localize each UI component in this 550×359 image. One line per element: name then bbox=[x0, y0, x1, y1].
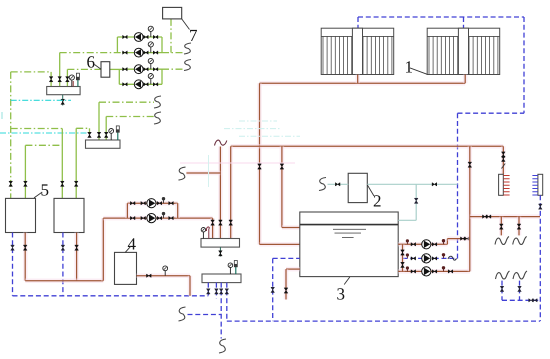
pipe green stub box5b-right bbox=[75, 128, 77, 198]
pipe red box5b outlet bbox=[74, 233, 79, 281]
manifold E bbox=[202, 274, 241, 283]
pipe green stub B2 riser bbox=[98, 102, 100, 140]
pipe stub manifold D to E bbox=[219, 247, 221, 256]
valve branch lower b bbox=[486, 215, 491, 218]
pipe red collect header bbox=[25, 278, 103, 283]
pipe red pump row A bbox=[127, 201, 177, 206]
gauge left R2 bbox=[406, 255, 408, 258]
gauge row 2 bbox=[150, 47, 152, 53]
valve row1 exit b bbox=[465, 237, 470, 240]
pipe faint cyan a bbox=[239, 120, 277, 122]
leader line 3 bbox=[344, 277, 350, 285]
pipe blue supply top header bbox=[358, 16, 524, 18]
valve E3 bbox=[219, 289, 223, 294]
pipe red row1 exit bbox=[447, 236, 469, 241]
valve E1 bbox=[207, 289, 211, 294]
pipe green left link rows1-2 bbox=[116, 37, 118, 53]
valve4 row A bbox=[169, 202, 174, 205]
pipe blue tank row2 bbox=[403, 257, 458, 259]
pipe faint cyan c bbox=[239, 135, 300, 137]
valve box5b-right bbox=[74, 181, 78, 186]
pipe blue bottom header bbox=[13, 295, 209, 297]
valve wavy drop a bbox=[500, 224, 504, 229]
break wave c bbox=[496, 271, 510, 279]
label 7 bbox=[190, 30, 197, 41]
pump P4 bbox=[134, 80, 143, 89]
pipe teal box2 to right bbox=[367, 183, 457, 185]
pipe red drop to manifold D bbox=[210, 218, 215, 238]
thermometer manifold A bbox=[77, 80, 79, 87]
valve drop manifold D bbox=[211, 220, 215, 225]
pipe green drop to B1 bbox=[89, 128, 91, 132]
radiator bank 1b outline bbox=[427, 28, 500, 74]
valve riser c bbox=[500, 286, 504, 291]
valve right row 1 bbox=[153, 35, 158, 38]
pipe green row1 left stub bbox=[117, 36, 122, 38]
label 5 bbox=[41, 184, 48, 195]
valve lower link b bbox=[533, 299, 538, 302]
pipe teal drop bbox=[415, 184, 417, 220]
fan coil comb2 body bbox=[538, 174, 543, 195]
pipe red riser from manifold bbox=[228, 146, 233, 238]
leader line 1 bbox=[410, 68, 427, 74]
pipe green B2 header bbox=[99, 101, 154, 103]
pipe blue riser c bbox=[501, 281, 503, 301]
radiator bank 1a header line bbox=[321, 35, 394, 37]
radiator bank 1b center connector bbox=[458, 28, 468, 74]
valve E2 bbox=[215, 289, 219, 294]
valve stub A1 bbox=[49, 77, 53, 82]
valve comb1 b bbox=[502, 156, 506, 161]
pump PA bbox=[147, 199, 156, 208]
pipe red comb1 feed bbox=[501, 146, 506, 174]
break wave d bbox=[513, 271, 527, 279]
leader line 4 bbox=[125, 246, 131, 252]
pipe red pump row B bbox=[103, 216, 212, 221]
valve right row 2 bbox=[153, 51, 158, 54]
valve mid row 2 bbox=[144, 51, 149, 54]
pipe red into tank upper bbox=[282, 225, 300, 230]
pipe cyan feed lower bbox=[0, 132, 90, 134]
pipe blue right riser bbox=[523, 17, 525, 113]
valve2 R3 bbox=[432, 270, 437, 273]
pipe faint cyan b bbox=[224, 128, 281, 130]
valve on center riser bbox=[219, 220, 223, 225]
pipe red branch lower bbox=[470, 214, 540, 219]
pipe green B3 header bbox=[106, 116, 154, 118]
leader line 2 bbox=[367, 185, 374, 196]
valve red box5b outlet bbox=[75, 245, 79, 250]
pipe blue E4 stub bbox=[226, 283, 228, 322]
pipe red link rows bbox=[400, 244, 405, 271]
valve2 R1 bbox=[432, 243, 437, 246]
valve stub A2 bbox=[58, 77, 62, 82]
faint cyan tick near manifold D bbox=[208, 155, 210, 187]
pipe red stub radiator 1b bbox=[463, 75, 468, 84]
pipe green row3 right extension bbox=[162, 68, 184, 70]
valve left row 3 bbox=[123, 68, 128, 71]
break symbol row3 bbox=[184, 60, 191, 71]
valve mid row 3 bbox=[144, 68, 149, 71]
pipe blue comb2 drop bbox=[539, 195, 541, 321]
gauge manifold B bbox=[110, 133, 112, 140]
pipe red box4 drop bbox=[188, 276, 193, 296]
pipe green cross header bbox=[25, 144, 62, 146]
pipe red row1 up bbox=[445, 239, 450, 245]
storage tank 5a bbox=[6, 198, 36, 232]
break symbol B2 bbox=[154, 96, 161, 108]
valve blue box5b drain bbox=[61, 245, 65, 250]
gauge row 3 bbox=[150, 64, 152, 70]
pump R1 bbox=[422, 240, 431, 249]
pipe blue riser d bbox=[519, 281, 521, 301]
pipe green link to manifold B bbox=[76, 127, 89, 129]
pipe blue E3 stub bbox=[220, 283, 222, 339]
valve1 row A bbox=[130, 202, 135, 205]
expansion vessel box 4 bbox=[115, 252, 137, 284]
fan coil comb1 body bbox=[499, 174, 504, 195]
pipe cyan feed upper bbox=[11, 99, 71, 101]
radiator bank 1a outline bbox=[321, 28, 394, 74]
pipe red branch from break bbox=[186, 171, 220, 176]
gauge left R3 bbox=[406, 268, 408, 271]
valve stub B3 bbox=[104, 132, 108, 137]
valve red box5a outlet bbox=[23, 245, 27, 250]
pipe red radiator return header bbox=[260, 81, 466, 86]
pipe green branch header bbox=[11, 128, 63, 130]
pipe green pump row 2 bbox=[122, 52, 162, 54]
break tilde top of riser bbox=[215, 140, 227, 145]
pipe green stub B3 riser bbox=[105, 117, 107, 141]
pipe green expansion drop bbox=[170, 19, 172, 53]
label 6 bbox=[87, 56, 94, 67]
thermometer manifold B bbox=[117, 132, 119, 140]
gauge R2 bbox=[443, 255, 445, 259]
expansion tank box 7 bbox=[163, 7, 182, 19]
label 4 bbox=[128, 238, 136, 249]
valve link b bbox=[401, 262, 405, 267]
valve drain manifold A bbox=[61, 99, 65, 104]
valve mid row 1 bbox=[144, 35, 149, 38]
pipe green pump row 3 bbox=[122, 68, 162, 70]
valve right row 3 bbox=[153, 68, 158, 71]
pipe blue drop to radiator 1a bbox=[357, 17, 359, 28]
radiator bank 1a center connector bbox=[352, 28, 362, 74]
gauge box4 line bbox=[164, 271, 166, 276]
thermometer manifold E bbox=[235, 267, 237, 274]
gauge row B bbox=[163, 214, 165, 219]
break symbol B3 bbox=[154, 112, 161, 124]
leader line 7 bbox=[182, 19, 190, 30]
break wave a bbox=[495, 237, 509, 245]
pipe green header to left bbox=[11, 71, 51, 73]
leader line 6 bbox=[95, 65, 102, 70]
valve stub B1 bbox=[88, 132, 92, 137]
valve teal drop bbox=[414, 198, 418, 203]
pipe blue box5a drain bbox=[12, 233, 14, 296]
pipe green row4 left stub bbox=[119, 83, 122, 85]
pipe red return to tank bbox=[260, 242, 300, 247]
tank water level marks bbox=[333, 229, 366, 237]
gauge R3 bbox=[443, 268, 445, 272]
valve1 R3 bbox=[411, 270, 416, 273]
pipe red box5a outlet bbox=[23, 233, 28, 281]
pipe red link right bbox=[175, 203, 180, 218]
valve3 row B bbox=[157, 216, 162, 219]
pump PB bbox=[147, 214, 156, 223]
label 3 bbox=[337, 288, 344, 299]
pipe green right link rows1-2 bbox=[161, 37, 163, 53]
pipe blue wavy branch bbox=[188, 314, 222, 316]
pipe blue bottom main bbox=[227, 320, 540, 322]
pump P3 bbox=[134, 65, 143, 74]
faint cyan tick left edge bbox=[1, 112, 3, 119]
pipe green stub A3 bbox=[66, 69, 68, 86]
valve left row 2 bbox=[123, 51, 128, 54]
valve E4 bbox=[225, 289, 229, 294]
pipe blue tank feed drop bbox=[272, 258, 274, 321]
leader line 5 bbox=[34, 192, 42, 198]
label 2 bbox=[374, 195, 381, 206]
manifold D bbox=[201, 239, 240, 248]
pipe green stub box5b-left bbox=[61, 129, 63, 199]
valve box5a-right bbox=[24, 181, 28, 186]
pump P1 bbox=[134, 33, 143, 42]
pipe red wavy drop a bbox=[499, 217, 504, 236]
pipe blue tank feed bbox=[273, 257, 300, 259]
pipe red tank row3 bbox=[398, 269, 470, 274]
pipe green into box6 bbox=[67, 68, 101, 70]
pipe red link left bbox=[125, 203, 130, 218]
valve on manifold riser bbox=[229, 220, 233, 225]
gauge row 4 bbox=[150, 79, 152, 85]
pipe green pump row 4 bbox=[122, 83, 162, 85]
valve box5b-left bbox=[61, 181, 65, 186]
red stem manifold D bbox=[208, 229, 210, 239]
radiator bank 1b fins bbox=[429, 36, 498, 74]
gauge left R1 bbox=[406, 241, 408, 244]
break symbol blue bottom bbox=[219, 339, 226, 353]
valve stub A3 bbox=[66, 77, 70, 82]
pipe blue drop to radiator 1b bbox=[463, 17, 465, 28]
pipe teal into box2 bbox=[328, 183, 349, 185]
red stem manifold A gauge bbox=[72, 81, 74, 87]
valve teal right bbox=[432, 183, 437, 186]
valve stub B2 bbox=[97, 132, 101, 137]
pipe blue E2 stub bbox=[215, 283, 217, 299]
gauge R1 bbox=[443, 241, 445, 245]
pipe blue box5b drain bbox=[62, 233, 64, 296]
valve heating riser bbox=[468, 162, 472, 167]
valve branch lower a bbox=[483, 215, 488, 218]
pipe blue jog header bbox=[458, 112, 525, 114]
valve riser d bbox=[518, 286, 522, 291]
valve blue box5a drain bbox=[11, 245, 15, 250]
valve left row 1 bbox=[123, 35, 128, 38]
valve blue tank feed bbox=[271, 287, 275, 292]
pipe green left downcomer bbox=[10, 72, 12, 198]
valve1 row B bbox=[130, 216, 135, 219]
pipe green left link rows3-4 bbox=[118, 69, 120, 84]
pipe red supply main bbox=[231, 144, 504, 149]
valve3 row A bbox=[157, 202, 162, 205]
valve4 row B bbox=[169, 216, 174, 219]
pipe red tank row1 bbox=[398, 242, 447, 247]
pipe green out of box6 bbox=[110, 68, 122, 70]
pipe red box4 outlet bbox=[137, 273, 191, 278]
valve box5a-left bbox=[9, 181, 13, 186]
pipe red stub radiator 1a bbox=[355, 75, 360, 84]
label 1 bbox=[406, 61, 412, 72]
break wave b bbox=[513, 237, 527, 245]
pipe green pump row 1 bbox=[122, 36, 162, 38]
valve tank drain bbox=[284, 288, 288, 293]
pipe blue lower link bbox=[502, 299, 540, 301]
valve teal inlet bbox=[335, 183, 340, 186]
pipe faint pink bbox=[180, 162, 295, 164]
valve2 row B bbox=[141, 216, 146, 219]
pipe green stub box5a-right bbox=[24, 145, 26, 198]
pipe teal into tank bbox=[398, 219, 416, 221]
valve row1 exit a bbox=[461, 237, 466, 240]
gauge manifold E bbox=[229, 268, 231, 275]
pump P2 bbox=[134, 48, 143, 57]
break symbol teal bbox=[319, 178, 326, 191]
pipe green stub A2 bbox=[59, 53, 61, 87]
storage tank 5b bbox=[54, 198, 84, 232]
valve1 R2 bbox=[411, 257, 416, 260]
buffer tank 3 bbox=[300, 212, 398, 277]
valve mid row 4 bbox=[144, 83, 149, 86]
pump R3 bbox=[422, 267, 431, 276]
valve link a bbox=[401, 250, 405, 255]
valve1 R1 bbox=[411, 243, 416, 246]
pipe red drain drop bbox=[284, 269, 289, 299]
break symbol red branch bbox=[179, 167, 186, 180]
manifold B bbox=[86, 140, 121, 148]
fan coil comb1 red fins bbox=[503, 176, 509, 196]
valve on red drop bbox=[280, 164, 284, 169]
valve row3 exit bbox=[448, 270, 453, 273]
pump R2 bbox=[422, 254, 431, 263]
pipe green row2 right extension bbox=[162, 52, 184, 54]
pipe red heating riser bbox=[468, 146, 473, 271]
check mark comb1 bbox=[502, 164, 506, 169]
gauge manifold D bbox=[202, 232, 204, 239]
gauge row A bbox=[163, 199, 165, 204]
heat exchanger box 2 bbox=[348, 173, 367, 202]
fan coil comb2 blue fins bbox=[532, 176, 538, 196]
pipe green row2 supply line bbox=[60, 52, 122, 54]
pipe green stub A1 bbox=[50, 72, 52, 87]
manifold A bbox=[47, 87, 80, 95]
valve comb2 drop bbox=[539, 204, 543, 209]
valve box4 outlet bbox=[147, 274, 152, 277]
controller box 6 bbox=[101, 62, 110, 77]
valve lower link a bbox=[529, 299, 534, 302]
pipe red riser to pumps bbox=[101, 218, 106, 281]
pipe blue down riser bbox=[457, 113, 459, 258]
valve2 row A bbox=[141, 202, 146, 205]
tank top band line bbox=[300, 224, 398, 226]
pipe red wavy drop b bbox=[517, 217, 522, 236]
pipe green right link rows3-4 bbox=[161, 69, 163, 84]
valve wavy drop b bbox=[517, 224, 521, 229]
valve right row 4 bbox=[153, 83, 158, 86]
tilde break row2 bbox=[448, 256, 457, 260]
pipe blue E1 stub bbox=[207, 283, 209, 296]
drain stub below manifold A bbox=[62, 95, 64, 106]
valve left row 4 bbox=[123, 83, 128, 86]
gauge row 1 bbox=[150, 31, 152, 37]
pipe red tank drain bbox=[286, 267, 300, 272]
pipe red drop to tank top bbox=[280, 146, 285, 227]
break symbol row2 bbox=[184, 43, 191, 54]
valve between D and E bbox=[219, 251, 223, 256]
break symbol blue branch bbox=[179, 307, 186, 321]
valve on red downcomer bbox=[258, 164, 262, 169]
pipe red center riser bbox=[218, 147, 223, 239]
gauge manifold A bbox=[71, 80, 73, 86]
pipe red return downcomer bbox=[257, 83, 262, 244]
safety valve curl manifold D bbox=[206, 227, 209, 231]
valve2 R2 bbox=[432, 257, 437, 260]
radiator bank 1a fins bbox=[323, 36, 392, 74]
valve comb1 a bbox=[502, 152, 506, 157]
radiator bank 1b header line bbox=[427, 35, 500, 37]
